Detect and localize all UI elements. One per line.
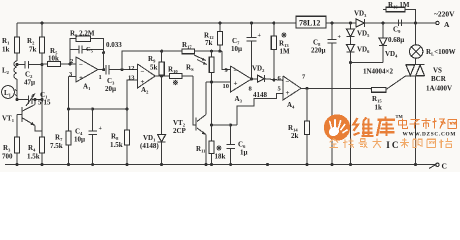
transistor VT2 <box>173 76 208 166</box>
svg-text:2k: 2k <box>291 132 299 140</box>
svg-text:R2: R2 <box>27 37 35 46</box>
svg-text:1.5k: 1.5k <box>27 153 40 161</box>
svg-text:+: + <box>338 35 342 41</box>
svg-text:2: 2 <box>70 58 73 65</box>
svg-text:1M: 1M <box>280 48 291 56</box>
watermark char shi <box>422 118 431 129</box>
svg-text:R17: R17 <box>182 41 192 50</box>
node ground junction <box>266 163 269 166</box>
svg-text:10k: 10k <box>48 55 59 63</box>
svg-text:TM: TM <box>396 114 404 119</box>
svg-text:+: + <box>258 33 262 39</box>
watermark char dian <box>399 119 408 129</box>
svg-text:1.5k: 1.5k <box>110 141 123 149</box>
capacitor C4 <box>74 107 103 166</box>
watermark logo dzsc <box>324 114 350 140</box>
svg-text:4148: 4148 <box>253 91 268 99</box>
svg-text:R9: R9 <box>148 55 156 64</box>
resistor R17 <box>162 41 222 54</box>
svg-text:78L12: 78L12 <box>299 19 320 28</box>
svg-text:10µ: 10µ <box>74 136 85 144</box>
svg-text:220µ: 220µ <box>311 47 326 55</box>
resistor R11 <box>196 125 226 166</box>
op-amp A2 <box>127 64 155 109</box>
watermark char chang <box>433 118 446 129</box>
watermark char wei <box>354 118 360 135</box>
svg-text:(4148): (4148) <box>140 142 159 150</box>
capacitor C7 <box>231 21 262 80</box>
resistor R10 <box>168 66 193 88</box>
svg-text:IC: IC <box>386 140 400 150</box>
svg-text:R3: R3 <box>3 144 11 153</box>
svg-text:R7: R7 <box>55 134 63 143</box>
svg-text:A2: A2 <box>141 86 149 95</box>
watermark slogan <box>330 138 452 150</box>
svg-text:7k: 7k <box>29 46 37 54</box>
svg-text:+: + <box>141 78 145 86</box>
svg-text:−: − <box>141 68 145 76</box>
wire bias rail <box>67 77 127 111</box>
wire A2 input node riser <box>122 51 162 69</box>
wire pin10 node <box>206 80 231 83</box>
svg-text:1k: 1k <box>375 104 383 112</box>
svg-text:5k: 5k <box>150 64 158 72</box>
svg-text:−: − <box>234 67 238 75</box>
diode VD1 <box>140 76 166 166</box>
resistor R7 <box>50 109 71 166</box>
capacitor C3 coupling <box>98 65 138 93</box>
resistor R16 <box>383 1 417 25</box>
svg-text:R15: R15 <box>372 95 382 104</box>
svg-text:12: 12 <box>128 65 135 72</box>
svg-text:VD5: VD5 <box>357 30 370 39</box>
svg-text:R1: R1 <box>2 37 10 46</box>
svg-text:5: 5 <box>278 86 282 93</box>
wire A2 output node <box>155 74 169 77</box>
svg-text:1: 1 <box>99 74 102 81</box>
inductor L2 <box>2 61 17 99</box>
op-amp A3 <box>223 66 253 104</box>
resistor R1 <box>2 23 20 61</box>
svg-text:C5: C5 <box>86 46 93 54</box>
IC 78L12 <box>296 16 326 28</box>
lamp RL <box>410 23 456 58</box>
svg-text:A4: A4 <box>287 101 295 110</box>
resistor R2 <box>27 21 45 99</box>
svg-text:13: 13 <box>128 75 135 82</box>
svg-text:7: 7 <box>302 74 306 81</box>
svg-text:A1: A1 <box>83 83 91 92</box>
diode VD3 <box>349 10 367 28</box>
svg-text:0.033: 0.033 <box>106 41 122 49</box>
resistor R9 <box>148 50 164 76</box>
svg-text:VD6: VD6 <box>357 46 370 55</box>
artifact mark <box>429 165 436 169</box>
svg-text:RL<100W: RL<100W <box>426 48 456 57</box>
svg-text:C: C <box>442 162 447 171</box>
watermark url <box>403 132 457 138</box>
capacitor C5 0.033 feedback <box>70 41 122 70</box>
svg-text:47µ: 47µ <box>24 79 35 87</box>
svg-text:1k: 1k <box>2 46 10 54</box>
svg-text:0.68µ: 0.68µ <box>388 36 404 44</box>
svg-text:10µ: 10µ <box>231 45 242 53</box>
svg-text:~220V: ~220V <box>434 10 455 19</box>
capacitor C2 <box>16 61 44 87</box>
svg-text:VT1: VT1 <box>2 115 15 124</box>
wire top rail right <box>326 22 436 24</box>
svg-text:18k: 18k <box>215 153 226 161</box>
svg-text:+: + <box>79 74 83 82</box>
capacitor C1 variable <box>15 91 50 107</box>
resistor R6 feedback <box>70 30 104 65</box>
wire stair to A4 plus <box>237 94 283 126</box>
svg-text:VD3: VD3 <box>354 10 367 19</box>
diode VD6 <box>347 37 371 167</box>
capacitor C6 <box>227 123 248 166</box>
svg-text:10: 10 <box>223 83 230 90</box>
svg-text:−: − <box>79 61 83 69</box>
svg-text:R11: R11 <box>196 145 206 154</box>
svg-text:VD2: VD2 <box>252 65 265 74</box>
svg-text:WWW.DZSC.COM: WWW.DZSC.COM <box>403 132 457 138</box>
svg-text:A3: A3 <box>235 95 243 104</box>
svg-text:+: + <box>99 126 103 132</box>
wire VD4 bottom to column <box>349 61 383 64</box>
svg-text:5/15: 5/15 <box>38 99 51 107</box>
resistor R13 <box>271 21 290 81</box>
watermark char zi <box>410 120 420 129</box>
resistor R3 <box>2 115 20 167</box>
resistor R15 <box>370 76 406 112</box>
svg-text:1A/400V: 1A/400V <box>426 85 452 93</box>
svg-text:7.5k: 7.5k <box>50 142 63 150</box>
terminal A <box>415 10 455 30</box>
svg-text:※: ※ <box>173 79 179 87</box>
svg-text:−: − <box>286 78 290 86</box>
svg-text:20µ: 20µ <box>105 85 116 93</box>
svg-text:※: ※ <box>216 145 222 153</box>
watermark char ku <box>377 117 395 136</box>
svg-text:R6 2.2M: R6 2.2M <box>70 30 95 39</box>
terminal C <box>436 162 447 171</box>
wire to A3 pin9 <box>222 51 231 69</box>
inductor L1 pickup coil <box>2 86 17 99</box>
op-amp A4 <box>278 74 307 110</box>
resistor R12 <box>204 21 222 52</box>
triac VS <box>406 58 453 166</box>
svg-text:R8: R8 <box>111 133 119 142</box>
svg-text:RS: RS <box>186 64 194 73</box>
svg-text:C9: C9 <box>393 26 401 35</box>
diode VD4 <box>379 21 398 62</box>
wire A4 output <box>301 87 370 90</box>
wire top rail left <box>17 22 296 24</box>
svg-text:※: ※ <box>281 32 287 40</box>
svg-text:9: 9 <box>225 67 229 74</box>
svg-text:8: 8 <box>249 86 253 93</box>
wire bottom rail <box>5 164 436 166</box>
svg-text:1N4004×2: 1N4004×2 <box>363 68 394 76</box>
node VT2 collector junction <box>210 123 237 126</box>
svg-text:VD4: VD4 <box>385 50 398 59</box>
capacitor C8 <box>311 21 342 166</box>
svg-text:1µ: 1µ <box>240 149 248 157</box>
svg-text:700: 700 <box>2 153 13 161</box>
op-amp A1 <box>69 57 102 91</box>
diode VD2 <box>252 65 284 100</box>
capacitor C9 <box>388 20 404 45</box>
watermark char wang <box>448 120 457 129</box>
resistor R14 <box>288 88 310 166</box>
diode VD5 <box>347 23 371 38</box>
svg-text:VS: VS <box>433 67 442 75</box>
label 1N4004 <box>363 68 394 76</box>
svg-text:6: 6 <box>278 75 282 82</box>
resistor R4 <box>27 100 45 167</box>
svg-text:R16 1M: R16 1M <box>388 1 410 10</box>
svg-text:L1: L1 <box>4 89 12 98</box>
svg-text:BCR: BCR <box>431 75 447 83</box>
svg-text:R4: R4 <box>28 144 36 153</box>
svg-text:A: A <box>444 20 450 29</box>
svg-text:+: + <box>234 80 238 88</box>
photoresistor RS <box>186 50 214 125</box>
transistor VT1 <box>2 98 42 131</box>
svg-text:+: + <box>286 89 290 97</box>
svg-text:R10: R10 <box>168 66 178 75</box>
svg-text:2CP: 2CP <box>173 127 187 135</box>
watermark TM <box>396 114 404 119</box>
resistor R8 <box>110 107 130 166</box>
svg-text:7k: 7k <box>205 39 213 47</box>
resistor R5 <box>42 47 76 67</box>
svg-text:L2: L2 <box>2 67 10 76</box>
